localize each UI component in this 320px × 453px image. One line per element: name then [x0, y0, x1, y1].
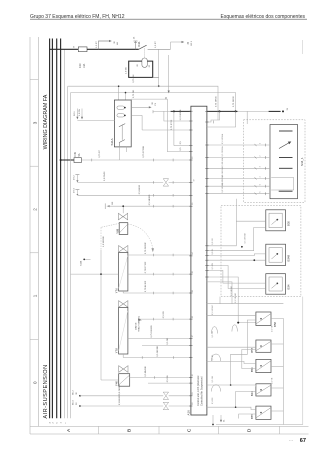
svg-text:1,0 SB31B: 1,0 SB31B: [103, 236, 105, 247]
battery bus wire 2: [51, 39, 53, 419]
wire row 345.5: [142, 345, 191, 347]
svg-text:0,5 BN: 0,5 BN: [212, 397, 214, 404]
branch to spare feed: [99, 41, 110, 49]
wire row 274: [71, 273, 119, 275]
secondary nest wires: [231, 320, 256, 385]
svg-text:7: 7: [206, 405, 208, 406]
svg-text:K11: K11: [137, 41, 141, 46]
dashed wire to terminal 30: [168, 55, 170, 91]
K11 terminal 15 stub: [135, 41, 137, 49]
svg-text:0,5 BN: 0,5 BN: [212, 263, 214, 270]
wire long row 395.8: [79, 395, 81, 397]
left margin band borders: [29, 37, 31, 434]
svg-text:S11B: S11B: [81, 260, 83, 266]
svg-text:5: 5: [206, 359, 208, 360]
svg-text:D2.1: D2.1: [74, 111, 76, 116]
svg-text:1: 1: [206, 302, 208, 303]
svg-text:0,75 RT: 0,75 RT: [99, 149, 101, 157]
svg-text:(VALVE: (VALVE: [134, 322, 137, 330]
S11A bottom wires: [118, 143, 120, 160]
svg-text:2: 2: [33, 208, 38, 211]
ground run: [216, 424, 303, 426]
node bus/F49: [60, 159, 62, 161]
bottom band borders: [30, 425, 309, 427]
wire drop left of Y88: [100, 227, 102, 250]
svg-text:A7: A7: [205, 267, 208, 269]
valve Y40: [119, 366, 128, 373]
wire row 206 with page arrow: [104, 203, 106, 209]
wire bold node row left: [152, 110, 154, 113]
svg-text:A4: A4: [191, 252, 194, 254]
svg-text:A2: A2: [191, 374, 194, 376]
svg-text:Grupo 37 Esquema elétrico FM,: Grupo 37 Esquema elétrico FM, FH, NH12: [30, 14, 125, 20]
svg-text:A2: A2: [205, 154, 208, 156]
sensor harness wires: [207, 221, 266, 246]
sensor harness labels right: [212, 304, 273, 404]
S11A switch contact: [119, 124, 125, 127]
svg-text:Control unit, ECS (Eletronic: Control unit, ECS (Eletronic: [197, 375, 200, 406]
sensor B348: [266, 244, 286, 265]
svg-text:A5: A5: [205, 183, 208, 185]
svg-text:F23: F23: [78, 63, 82, 68]
svg-text:0,75 BL36F: 0,75 BL36F: [145, 280, 147, 292]
wire F49 to A16: [81, 159, 190, 161]
svg-text:Y76: Y76: [115, 288, 119, 293]
svg-text:0,5 GR36E: 0,5 GR36E: [157, 345, 159, 356]
band scale ticks: [30, 79, 38, 81]
node relay/wireA: [158, 85, 160, 87]
S11A aux out: [131, 114, 142, 116]
off page stub row 259: [84, 258, 90, 260]
sensor B30: [266, 210, 286, 231]
svg-text:D7.4: D7.4: [73, 188, 75, 193]
svg-text:B30: B30: [286, 221, 290, 226]
ECU right pin ticks: [205, 111, 208, 277]
valve unit Y78: [119, 301, 128, 308]
wire row 383: [148, 382, 191, 384]
S44 contact bars: [279, 130, 293, 132]
K11 coil: [142, 58, 147, 67]
svg-text:1,0 RT: 1,0 RT: [96, 41, 98, 48]
svg-text:B3: B3: [206, 119, 208, 121]
svg-text:B5.2: B5.2: [73, 390, 75, 395]
pressure sensor B57: [256, 340, 271, 352]
svg-text:Esquemas elétricos dos compone: Esquemas elétricos dos componentes: [221, 14, 306, 20]
thin feed wire 5: [64, 49, 66, 418]
twisted pair loop 3: [211, 385, 220, 392]
svg-text:B2: B2: [192, 156, 194, 158]
svg-text:0,5 GN36: 0,5 GN36: [104, 171, 106, 181]
wire Y78 row 338.4: [128, 337, 191, 339]
svg-text:D: D: [247, 428, 253, 432]
svg-text:B4: B4: [206, 124, 208, 126]
battery bus wire 4: [60, 39, 62, 419]
svg-text:B2.1: B2.1: [191, 40, 193, 45]
shield row: [207, 303, 284, 305]
svg-text:0,75 OR: 0,75 OR: [133, 89, 135, 98]
svg-text:4: 4: [206, 345, 208, 346]
svg-text:Y78: Y78: [115, 348, 119, 353]
S11A lamp 2: [117, 114, 125, 117]
sensor harness labels: [212, 233, 247, 296]
svg-text:0,5 SB: 0,5 SB: [271, 325, 273, 332]
header rule: [30, 18, 307, 20]
svg-text:B5.4: B5.4: [73, 400, 75, 405]
svg-text:0,5 BL36A: 0,5 BL36A: [221, 157, 224, 167]
svg-text:5A: 5A: [78, 153, 81, 156]
svg-text:S44_1: S44_1: [300, 157, 304, 166]
ground path wire from K11: [129, 61, 153, 77]
svg-text:A8: A8: [191, 316, 194, 318]
svg-text:0,5 SB36A: 0,5 SB36A: [221, 182, 224, 193]
svg-text:Y88: Y88: [115, 228, 119, 233]
svg-text:0,5 GN: 0,5 GN: [212, 376, 214, 383]
ECU left short stubs: [175, 144, 191, 146]
svg-text:0,5 GN: 0,5 GN: [167, 375, 169, 382]
svg-text:0,5 OR36A: 0,5 OR36A: [221, 146, 224, 157]
S44 feed drops: [207, 111, 236, 127]
pressure sensor B24: [256, 384, 271, 396]
twisted pair loop 2: [211, 354, 220, 361]
svg-text:F49: F49: [73, 151, 77, 156]
svg-text:B: B: [127, 429, 133, 432]
svg-text:0,5 GR36A: 0,5 GR36A: [221, 133, 224, 144]
S44 feed drop center: [246, 111, 248, 124]
svg-text:A3: A3: [205, 165, 208, 167]
svg-text:A5: A5: [191, 271, 194, 273]
pressure sensor harness rows: [207, 314, 256, 316]
connector pair on row: [163, 179, 168, 186]
sheet right border fragments: [301, 40, 303, 54]
svg-text:B34: B34: [286, 284, 290, 289]
ECU A16 box: [191, 106, 207, 415]
svg-text:AIR-SUSPENSION: AIR-SUSPENSION: [43, 364, 49, 418]
svg-text:A16: A16: [187, 410, 191, 416]
svg-text:B58: B58: [273, 322, 277, 327]
svg-text:1,0 GN36B: 1,0 GN36B: [180, 109, 182, 120]
wire row D7 with lamp: [75, 174, 79, 176]
switch S11A box: [114, 100, 131, 147]
svg-text:0,5 SB36B: 0,5 SB36B: [235, 292, 237, 303]
pressure sensor B56: [256, 359, 271, 372]
wire Y76 row 293: [123, 291, 191, 293]
level sensors dashed boundary: [221, 206, 301, 297]
svg-text:0,5 BN36E: 0,5 BN36E: [145, 366, 147, 377]
svg-text:B9: B9: [206, 262, 208, 264]
wire switched out up: [170, 42, 172, 49]
wire bold node row right: [207, 110, 238, 112]
svg-text:S11A: S11A: [110, 138, 114, 145]
svg-text:6: 6: [206, 383, 208, 384]
svg-text:67: 67: [300, 438, 306, 444]
ECU bottom stubs: [212, 415, 214, 425]
wire relay out down: [158, 49, 160, 86]
S44 inner box: [270, 125, 298, 199]
svg-text:C: C: [186, 428, 192, 432]
svg-text:0,5 BN36C: 0,5 BN36C: [119, 394, 121, 405]
svg-text:Controlled Air Suspension): Controlled Air Suspension): [201, 376, 204, 406]
svg-text:B2: B2: [206, 243, 208, 245]
svg-text:⋯: ⋯: [289, 438, 293, 443]
svg-text:TRACTION BO): TRACTION BO): [138, 316, 141, 332]
svg-text:A9: A9: [191, 290, 194, 292]
svg-text:0,5 OR36B: 0,5 OR36B: [245, 233, 247, 244]
svg-text:0,5 BN36: 0,5 BN36: [139, 184, 141, 194]
relay K11 contact blade: [139, 45, 147, 49]
S44 row labels: [221, 133, 262, 193]
svg-text:0,75 RT36B: 0,75 RT36B: [143, 146, 145, 158]
svg-text:0,5 BL: 0,5 BL: [212, 248, 214, 255]
svg-text:B8: B8: [206, 257, 208, 259]
svg-text:0: 0: [33, 381, 38, 384]
svg-text:0,5 GR: 0,5 GR: [163, 311, 165, 318]
S11A lamp 1: [117, 106, 125, 109]
wire row B: [126, 93, 236, 112]
svg-text:B55: B55: [250, 414, 254, 419]
svg-text:1: 1: [33, 294, 38, 297]
svg-text:0,75 RT36: 0,75 RT36: [171, 119, 173, 130]
wire supply row to F49: [61, 159, 74, 161]
svg-text:3: 3: [33, 121, 38, 124]
svg-text:0,5 SB36B: 0,5 SB36B: [231, 285, 233, 296]
ECU right pin numbers: [205, 108, 208, 406]
svg-text:0,75 GR36F: 0,75 GR36F: [145, 242, 147, 255]
sensor return wires: [271, 319, 283, 425]
svg-text:0,75 GN: 0,75 GN: [133, 74, 135, 83]
wire row 195: [75, 189, 79, 191]
svg-text:B8: B8: [192, 402, 194, 404]
twisted pair loop 1: [232, 325, 238, 332]
pressure sensor B58: [256, 312, 271, 326]
svg-text:2: 2: [206, 313, 208, 314]
svg-text:0,5 OR: 0,5 OR: [212, 331, 214, 338]
svg-text:0,75 RT36F: 0,75 RT36F: [145, 261, 147, 273]
hook wire into right pin: [207, 111, 220, 122]
svg-text:10A: 10A: [83, 63, 86, 68]
svg-text:B7: B7: [194, 179, 196, 181]
svg-text:B1: B1: [206, 108, 208, 110]
ECU pin numbers left: [191, 156, 195, 404]
S11A feed arrows from above: [76, 109, 78, 117]
wire row 319.1 traction valve: [139, 319, 191, 321]
battery bus wire 1: [49, 39, 51, 419]
svg-text:A4: A4: [205, 175, 208, 177]
wire from connector down: [219, 297, 221, 304]
battery bus wire 3: [56, 39, 58, 419]
svg-text:0,5 SB36G: 0,5 SB36G: [149, 194, 151, 205]
wire feed into S11A: [77, 120, 114, 122]
svg-text:B9: B9: [192, 392, 194, 394]
fuse F23: [78, 47, 87, 52]
Y88 dashed links: [101, 223, 119, 227]
svg-text:0,5 OR36C: 0,5 OR36C: [119, 384, 121, 395]
valve unit Y76: [119, 246, 128, 253]
svg-text:A9: A9: [205, 279, 208, 281]
svg-text:B56: B56: [250, 367, 254, 372]
svg-text:A6: A6: [205, 190, 208, 192]
svg-text:B6: B6: [206, 247, 208, 249]
svg-text:B348: B348: [286, 255, 290, 262]
svg-text:0,5 SB: 0,5 SB: [271, 377, 273, 384]
svg-text:A1: A1: [205, 142, 208, 144]
svg-text:0,75 GR36: 0,75 GR36: [233, 96, 235, 107]
wire Y40 row 377.5: [130, 377, 191, 379]
wire S11A out arrow: [131, 106, 149, 108]
svg-text:0,5 BL: 0,5 BL: [212, 354, 214, 361]
thin feed wire 6: [67, 86, 69, 418]
svg-text:0,5 OR: 0,5 OR: [167, 337, 169, 344]
sensor B34: [266, 274, 286, 295]
wire Y76 row 255: [128, 254, 191, 256]
wire supply row to F23: [50, 48, 79, 50]
off page arrow right: [182, 41, 185, 43]
svg-text:B7: B7: [206, 252, 208, 254]
S44 lever arrow: [279, 143, 290, 149]
svg-text:0,75 OR36: 0,75 OR36: [215, 96, 217, 107]
pressure sensor B55: [256, 406, 271, 419]
drop from out wire to row 130: [141, 115, 143, 130]
valve Y88: [122, 206, 124, 213]
svg-text:0,75 GN36D: 0,75 GN36D: [151, 325, 153, 338]
svg-text:B57: B57: [250, 347, 254, 352]
fuse F49: [74, 158, 81, 163]
svg-text:0,5 GR: 0,5 GR: [212, 238, 214, 245]
svg-text:D7.2: D7.2: [73, 175, 75, 180]
svg-text:1,0 SB: 1,0 SB: [126, 67, 128, 74]
S44 row pin ticks: [255, 144, 266, 196]
wire long row 406: [79, 405, 81, 407]
svg-text:1,0 RT: 1,0 RT: [155, 41, 157, 48]
svg-text:1,0 GN: 1,0 GN: [79, 109, 81, 116]
S44 wire rows: [207, 145, 270, 194]
svg-text:3: 3: [206, 321, 208, 322]
wire S11A aux Z row: [131, 99, 191, 152]
wire F23 to K11 switch: [87, 48, 139, 50]
K11 mechanical link: [144, 48, 146, 58]
svg-text:B6: B6: [192, 203, 194, 205]
svg-text:0,5 GR36C: 0,5 GR36C: [212, 304, 214, 315]
ECU pin ticks left: [189, 111, 192, 406]
svg-text:WIRING DIAGRAM FA: WIRING DIAGRAM FA: [43, 94, 49, 149]
svg-text:A7: A7: [191, 335, 194, 337]
svg-text:A8: A8: [205, 274, 208, 276]
switch unit S44_1 dashed boundary: [244, 120, 306, 203]
wire Y78 row 357.5: [122, 354, 124, 358]
wire row A: [119, 86, 218, 111]
